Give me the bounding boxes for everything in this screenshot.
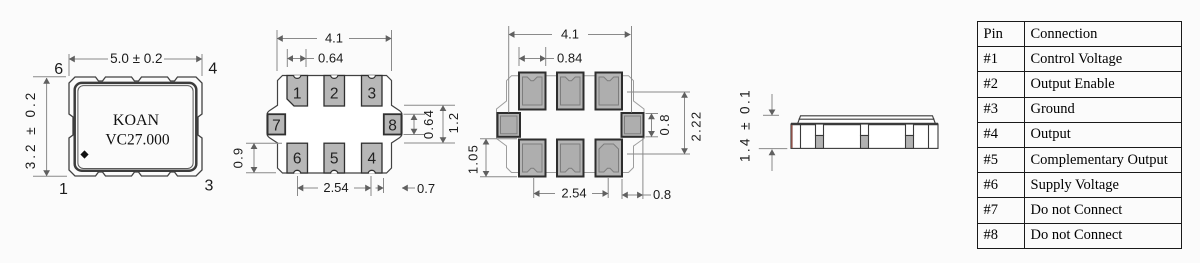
svg-text:2: 2 bbox=[330, 86, 339, 103]
svg-text:7: 7 bbox=[272, 117, 281, 134]
svg-text:0.64: 0.64 bbox=[318, 51, 343, 66]
svg-text:KOAN: KOAN bbox=[113, 112, 160, 129]
svg-text:8: 8 bbox=[388, 117, 397, 134]
svg-text:4.1: 4.1 bbox=[561, 27, 579, 42]
svg-text:6: 6 bbox=[54, 61, 63, 78]
svg-text:3: 3 bbox=[205, 178, 214, 195]
svg-text:5: 5 bbox=[330, 150, 339, 167]
svg-text:1.2: 1.2 bbox=[446, 112, 461, 134]
svg-text:1: 1 bbox=[293, 86, 302, 103]
svg-text:0.8: 0.8 bbox=[657, 113, 672, 135]
svg-text:VC27.000: VC27.000 bbox=[105, 132, 169, 149]
svg-text:1.4 ± 0.1: 1.4 ± 0.1 bbox=[738, 88, 753, 162]
svg-text:0.64: 0.64 bbox=[421, 109, 436, 139]
svg-text:1.05: 1.05 bbox=[466, 144, 481, 174]
svg-text:0.7: 0.7 bbox=[417, 181, 435, 196]
svg-text:3.2 ± 0.2: 3.2 ± 0.2 bbox=[23, 90, 38, 169]
svg-text:0.9: 0.9 bbox=[231, 147, 246, 169]
svg-text:2.54: 2.54 bbox=[323, 180, 348, 195]
svg-text:0.84: 0.84 bbox=[557, 51, 582, 66]
svg-text:3: 3 bbox=[367, 86, 376, 103]
svg-text:4: 4 bbox=[208, 61, 217, 78]
svg-text:2.54: 2.54 bbox=[561, 186, 586, 201]
svg-text:4: 4 bbox=[367, 150, 376, 167]
svg-text:6: 6 bbox=[293, 150, 302, 167]
svg-text:2.22: 2.22 bbox=[689, 111, 704, 142]
svg-text:5.0 ± 0.2: 5.0 ± 0.2 bbox=[110, 51, 162, 66]
svg-text:0.8: 0.8 bbox=[653, 187, 671, 202]
svg-text:4.1: 4.1 bbox=[325, 31, 343, 46]
svg-text:1: 1 bbox=[59, 181, 68, 198]
